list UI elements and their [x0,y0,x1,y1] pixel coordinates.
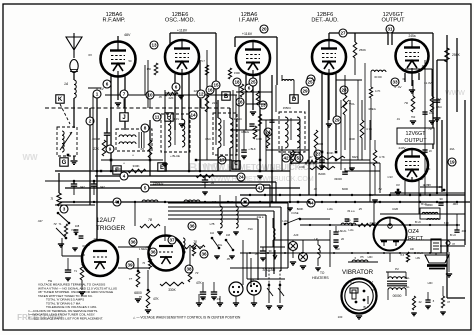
svg-text:OUTPUT: OUTPUT [382,18,406,24]
svg-text:K: K [58,97,63,103]
svg-text:38: 38 [186,267,192,272]
svg-text:WW: WW [22,153,38,162]
svg-text:B20K: B20K [318,172,325,176]
svg-text:18: 18 [234,80,240,85]
svg-text:.05: .05 [158,95,162,99]
svg-text:330K: 330K [132,164,139,168]
svg-text:115: 115 [250,278,255,282]
svg-text:22K: 22K [212,101,217,105]
svg-text:.05: .05 [140,147,145,151]
svg-text:1A: 1A [64,82,69,86]
svg-text:LUG: LUG [345,218,350,222]
svg-text:22K: 22K [93,147,100,151]
svg-text:29A: 29A [436,97,441,101]
svg-text:LUG: LUG [282,219,288,223]
svg-text:RECT.: RECT. [408,236,425,242]
svg-text:4: 4 [123,174,126,179]
svg-text:00800: 00800 [425,203,433,207]
svg-text:33000: 33000 [334,177,342,181]
svg-text:-1.4V: -1.4V [173,117,180,121]
svg-text:8200: 8200 [342,187,348,191]
svg-text:LUG: LUG [341,229,346,233]
svg-text:33: 33 [392,80,398,85]
svg-text:BLA: BLA [364,305,369,309]
svg-text:7L7: 7L7 [369,280,374,284]
svg-text:22K: 22K [169,96,174,100]
svg-text:245a: 245a [408,34,415,38]
svg-text:47K: 47K [196,281,203,285]
svg-text:1MEG: 1MEG [368,107,376,111]
svg-text:455KC: 455KC [234,117,242,121]
svg-text:36: 36 [150,250,156,255]
svg-text:104K: 104K [326,151,333,155]
svg-text:7LL: 7LL [350,281,355,285]
svg-text:LUG: LUG [327,207,333,211]
svg-text:110: 110 [210,232,215,235]
svg-text:14: 14 [190,113,196,118]
svg-text:+ BLK: + BLK [248,147,256,151]
svg-text:OSC.-MOD.: OSC.-MOD. [165,18,196,24]
svg-text:36L: 36L [218,243,223,247]
svg-text:9: 9 [109,147,112,152]
svg-text:6: 6 [175,85,178,90]
svg-text:240V: 240V [398,146,405,150]
svg-text:24a a: 24a a [257,215,264,219]
svg-text:.047: .047 [99,185,105,189]
svg-text:47K: 47K [153,297,160,301]
svg-text:.047: .047 [79,185,85,189]
svg-text:LUG: LUG [349,229,354,232]
svg-text:.7SC: .7SC [247,227,253,231]
svg-text:+12V: +12V [145,245,151,249]
svg-text:.05: .05 [438,185,442,189]
svg-text:.01: .01 [396,117,400,121]
svg-text:20K: 20K [426,167,431,171]
svg-text:+116V: +116V [242,32,253,36]
svg-text:L9N: L9N [428,281,433,285]
svg-text:.00008: .00008 [91,137,100,141]
svg-text:TO: TO [320,271,325,275]
svg-text:MES: MES [352,155,358,159]
svg-text:455KC: 455KC [283,106,291,110]
svg-text:100K: 100K [256,137,262,141]
svg-text:51: 51 [296,156,302,161]
svg-text:5.7: 5.7 [201,59,205,63]
svg-text:28: 28 [341,88,347,93]
svg-text:11: 11 [155,115,160,120]
svg-text:OUTPUT: OUTPUT [404,138,427,144]
svg-text:00000: 00000 [393,294,402,298]
svg-text:73: 73 [195,271,199,275]
svg-text:29: 29 [302,89,308,94]
svg-text:50: 50 [129,59,132,63]
svg-text:41: 41 [257,186,263,191]
svg-text:31: 31 [387,27,393,32]
svg-text:7I: 7I [50,197,53,201]
svg-text:60: 60 [82,253,86,257]
svg-text:6: 6 [248,86,251,91]
svg-text:6: 6 [106,82,109,87]
svg-text:20: 20 [93,237,97,241]
svg-text:FUSE: FUSE [292,211,299,215]
svg-text:TRIGGER: TRIGGER [96,225,125,232]
svg-text:5: 5 [144,186,147,191]
svg-text:100: 100 [338,315,343,319]
svg-text:8: 8 [144,126,147,131]
svg-text:20: 20 [261,27,267,32]
svg-text:2: 2 [89,119,92,124]
svg-text:30: 30 [439,197,443,201]
svg-text:10: 10 [336,247,340,251]
svg-text:4.7K: 4.7K [379,155,385,159]
svg-text:108: 108 [75,224,80,228]
svg-text:84 a a: 84 a a [348,210,356,213]
svg-text:760: 760 [411,115,416,119]
svg-text:R.F.AMP.: R.F.AMP. [103,18,126,24]
svg-text:100K: 100K [349,137,355,141]
svg-text:10K: 10K [410,249,415,251]
svg-text:+118V: +118V [177,29,188,33]
svg-text:36: 36 [189,224,195,229]
svg-text:16: 16 [207,88,213,93]
svg-text:1MEG: 1MEG [241,130,249,134]
svg-text:25: 25 [250,80,256,85]
svg-text:J: J [122,115,125,121]
svg-text:TW: TW [48,279,53,283]
svg-text:.02: .02 [313,187,317,191]
svg-text:12AU7: 12AU7 [96,217,116,224]
svg-text:0V: 0V [88,53,92,57]
svg-text:.003: .003 [461,229,467,233]
svg-text:15: 15 [213,83,219,88]
svg-text:29A: 29A [450,147,455,151]
svg-text:7C: 7C [86,243,90,247]
svg-text:24: 24 [238,175,244,180]
svg-text:25: 25 [307,80,313,85]
svg-text:107: 107 [212,200,217,204]
svg-text:L8: L8 [339,229,342,233]
svg-text:150: 150 [147,67,152,71]
svg-text:106: 106 [229,200,234,204]
svg-text:78: 78 [193,240,197,244]
svg-text:P2: P2 [395,267,399,271]
svg-text:OZ4: OZ4 [408,229,419,235]
svg-text:250K: 250K [452,53,461,57]
svg-text:P5: P5 [372,288,376,292]
svg-text:48V: 48V [124,33,131,37]
svg-text:71: 71 [59,222,62,226]
svg-text:BUIC: BUIC [188,160,220,175]
svg-text:36: 36 [130,240,136,245]
svg-text:+ BLUE: + BLUE [170,154,180,158]
svg-text:36: 36 [201,252,207,257]
svg-text:12V6GT: 12V6GT [405,131,426,137]
svg-text:0V: 0V [396,183,400,187]
svg-text:DET.-AUD.: DET.-AUD. [311,18,339,24]
svg-text:47: 47 [447,300,451,304]
svg-text:47: 47 [309,155,313,159]
svg-text:B LK: B LK [415,220,421,224]
svg-text:1.9V: 1.9V [387,175,393,179]
svg-text:L9N: L9N [416,257,421,260]
svg-text:1.5K: 1.5K [115,167,121,171]
svg-text:16: 16 [237,100,243,105]
svg-text:4.7K: 4.7K [375,89,381,93]
svg-text:37: 37 [169,238,175,243]
svg-text:.25: .25 [358,207,362,211]
svg-text:30: 30 [268,249,272,253]
svg-text:L7B: L7B [210,222,215,226]
svg-text:E: E [160,165,164,171]
svg-text:Y EL: Y EL [404,276,410,280]
svg-text:27: 27 [340,31,346,36]
svg-text:19: 19 [449,160,455,165]
svg-text:47: 47 [225,93,228,97]
svg-text:1: 1 [96,92,99,97]
svg-text:39: 39 [127,263,133,268]
svg-text:A2F: A2F [294,233,299,237]
svg-text:8 LK: 8 LK [417,251,423,255]
svg-text:108: 108 [226,234,231,237]
svg-text:G: G [62,160,67,166]
svg-text:GRN: GRN [317,142,323,146]
svg-text:LP: LP [314,237,317,241]
svg-text:22K: 22K [194,89,199,93]
svg-text:B20K: B20K [297,207,304,211]
svg-text:Y EL: Y EL [404,285,410,289]
svg-text:250K: 250K [359,48,366,52]
svg-text:20: 20 [341,237,345,241]
svg-text:00 000: 00 000 [374,76,382,79]
svg-text:VIBRATOR: VIBRATOR [342,269,374,276]
svg-text:UGB: UGB [392,207,398,211]
svg-text:.047: .047 [37,219,43,223]
svg-text:3: 3 [63,207,66,212]
svg-text:I.F.AMP.: I.F.AMP. [239,18,260,24]
svg-text:7: 7 [123,92,126,97]
svg-text:WWW: WWW [445,90,465,97]
svg-text:.05: .05 [226,257,230,261]
svg-text:29: 29 [334,118,340,123]
svg-text:7D: 7D [428,127,431,131]
svg-text:77: 77 [129,277,133,281]
svg-text:26Ω: 26Ω [436,105,442,109]
svg-text:13: 13 [151,43,157,48]
svg-text:7Z: 7Z [53,222,57,226]
svg-text:40V: 40V [422,64,427,68]
svg-text:330K: 330K [168,288,176,292]
svg-text:.02: .02 [418,300,422,304]
svg-text:L9N: L9N [368,255,373,259]
svg-text:13: 13 [260,103,266,108]
svg-text:71: 71 [74,269,78,273]
svg-text:12: 12 [198,92,204,97]
svg-text:**—SEE SERVICE PARTS LIST FOR: **—SEE SERVICE PARTS LIST FOR REPLACEMEN… [28,316,103,320]
svg-text:P5: P5 [360,255,364,259]
svg-text:HEATERS: HEATERS [312,276,329,280]
svg-text:OSC: OSC [205,137,211,141]
svg-text:B LK: B LK [450,233,456,237]
svg-text:△ — VOLTAGE WHEN SENSITIVITY C: △ — VOLTAGE WHEN SENSITIVITY CONTROL IS … [133,316,241,320]
svg-text:150K: 150K [234,71,240,75]
svg-text:42: 42 [283,156,289,161]
svg-text:LUG: LUG [429,112,434,115]
svg-text:100K: 100K [299,165,305,169]
